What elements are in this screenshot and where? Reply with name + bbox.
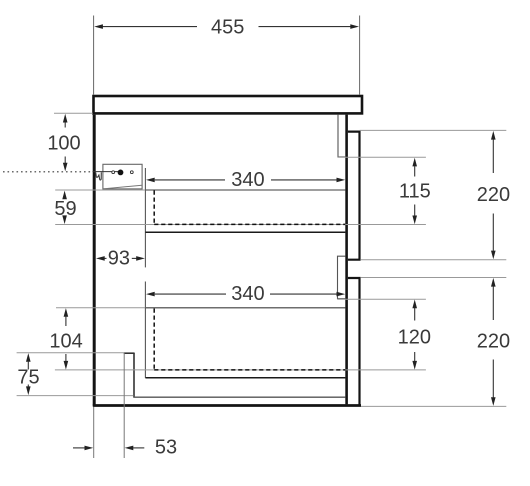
extension line 104 top bbox=[56, 307, 145, 309]
svg-text:104: 104 bbox=[49, 331, 82, 353]
dimension 220 upper bbox=[477, 131, 510, 259]
lower drawer bottom L-profile bbox=[145, 282, 345, 378]
dimension 75 bbox=[17, 353, 39, 395]
svg-text:340: 340 bbox=[231, 283, 264, 305]
extension line drawer1 front bottom bbox=[361, 259, 507, 261]
lower drawer box top edge bbox=[145, 307, 345, 309]
bracket hook bbox=[96, 172, 102, 180]
extension line 75 bottom bbox=[17, 395, 134, 397]
extension line drawer1 top (59 top) bbox=[55, 189, 145, 191]
extension line drawer1 front top bbox=[360, 129, 507, 131]
dimension 455 bbox=[94, 17, 359, 39]
dimension 53 bbox=[73, 437, 177, 459]
extension line 53 right bbox=[123, 353, 125, 458]
extension line top-left of 455 bbox=[93, 16, 95, 95]
extension line cabinet bottom right bbox=[361, 405, 506, 407]
top rail bbox=[338, 115, 345, 157]
skirting notch bbox=[124, 353, 346, 397]
dimension 59 bbox=[54, 191, 76, 225]
upper drawer bottom L-profile bbox=[145, 168, 345, 267]
bracket screw holes bbox=[112, 170, 133, 176]
dimension 220 lower bbox=[477, 278, 510, 406]
svg-text:93: 93 bbox=[108, 248, 130, 270]
countertop panel bbox=[94, 96, 363, 113]
extension line 53 left bbox=[93, 407, 95, 458]
svg-text:53: 53 bbox=[155, 437, 177, 459]
dimension 340 upper bbox=[146, 169, 345, 191]
extension line countertop bottom left bbox=[54, 112, 93, 114]
svg-text:220: 220 bbox=[477, 184, 510, 206]
extension line rail2 bottom (120 top) bbox=[338, 298, 426, 300]
dimension 340 lower bbox=[146, 283, 345, 305]
dimension 93 bbox=[96, 248, 145, 270]
extension line drawer1 bottom long bbox=[55, 224, 426, 226]
middle rail bbox=[338, 256, 346, 299]
lower drawer front bbox=[348, 278, 360, 406]
extension line 104 bottom long bbox=[55, 369, 426, 371]
cabinet bottom panel bbox=[93, 404, 361, 407]
extension line drawer2 front top bbox=[361, 277, 507, 279]
svg-text:75: 75 bbox=[17, 367, 39, 389]
svg-text:120: 120 bbox=[398, 327, 431, 349]
carcass front wall bbox=[345, 115, 348, 405]
svg-text:220: 220 bbox=[477, 330, 510, 352]
svg-text:455: 455 bbox=[211, 17, 244, 39]
back wall panel bbox=[93, 115, 96, 406]
dimension 100 bbox=[47, 114, 80, 172]
extension line rail1 bottom (115 top) bbox=[338, 156, 426, 158]
mounting axis dotted line bbox=[3, 171, 120, 173]
upper drawer hidden box (dashed) bbox=[154, 191, 345, 225]
upper drawer box top edge bbox=[145, 189, 345, 191]
svg-text:100: 100 bbox=[47, 133, 80, 155]
dimension 104 bbox=[49, 308, 82, 370]
svg-text:59: 59 bbox=[54, 198, 76, 220]
extension line top-right of 455 bbox=[359, 16, 361, 95]
wall mounting bracket bbox=[103, 164, 142, 189]
svg-text:340: 340 bbox=[231, 169, 264, 191]
svg-text:115: 115 bbox=[399, 180, 431, 202]
lower drawer hidden box (dashed) bbox=[154, 309, 345, 370]
dimension 115 bbox=[399, 158, 431, 225]
extension line 75 top / notch top level bbox=[17, 352, 124, 354]
dimension 120 bbox=[398, 300, 431, 370]
upper drawer front bbox=[348, 132, 360, 260]
